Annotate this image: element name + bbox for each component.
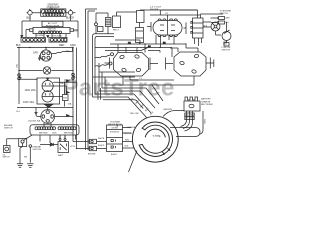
svg-text:RED: RED	[190, 115, 195, 117]
svg-text:3600: 3600	[223, 44, 227, 46]
svg-text:RELAY: RELAY	[49, 8, 57, 11]
svg-text:ENGINE: ENGINE	[150, 9, 159, 11]
svg-text:CHARGE: CHARGE	[201, 100, 211, 103]
svg-text:SWITCH: SWITCH	[222, 50, 231, 52]
svg-text:RECTIFIER: RECTIFIER	[201, 104, 213, 106]
svg-text:BLK: BLK	[53, 133, 58, 135]
svg-text:GRN: GRN	[70, 44, 76, 47]
svg-text:BROWN: BROWN	[39, 133, 48, 135]
svg-text:SWITCH: SWITCH	[33, 149, 42, 151]
svg-text:POWER: POWER	[36, 35, 45, 37]
svg-text:BLK: BLK	[185, 118, 189, 120]
svg-text:T-TYPE: T-TYPE	[152, 136, 161, 138]
svg-text:RED: RED	[125, 139, 130, 141]
svg-text:BLACK: BLACK	[66, 17, 75, 20]
svg-text:RED: RED	[59, 44, 64, 47]
svg-text:BROWN: BROWN	[164, 109, 173, 111]
svg-text:120V 20A: 120V 20A	[25, 89, 36, 92]
svg-text:BATTERY: BATTERY	[201, 98, 211, 101]
svg-text:BLK: BLK	[190, 118, 194, 120]
svg-text:15A: 15A	[68, 103, 72, 106]
svg-text:BLK: BLK	[27, 17, 32, 20]
svg-text:REGULATOR: REGULATOR	[108, 123, 122, 126]
svg-text:SWITCH: SWITCH	[3, 156, 11, 158]
svg-text:YELLOW: YELLOW	[130, 113, 140, 115]
svg-text:BLK: BLK	[125, 145, 129, 147]
svg-text:RED: RED	[185, 115, 190, 117]
svg-text:RECT: RECT	[113, 30, 120, 32]
svg-text:120/240V 30A: 120/240V 30A	[28, 120, 41, 123]
svg-text:GROUND: GROUND	[53, 36, 63, 38]
svg-text:BATT: BATT	[58, 154, 64, 157]
svg-text:REGULATOR: REGULATOR	[46, 25, 60, 28]
svg-text:YELLOW: YELLOW	[124, 133, 132, 135]
svg-text:SW: SW	[24, 157, 27, 159]
svg-text:120V 20A: 120V 20A	[23, 101, 34, 104]
svg-text:BROWN: BROWN	[64, 133, 73, 135]
svg-text:MODULE: MODULE	[47, 31, 56, 33]
svg-text:BLK: BLK	[16, 44, 21, 47]
svg-text:GRN: GRN	[225, 18, 230, 20]
svg-text:+12V: +12V	[70, 146, 76, 148]
svg-text:YEL: YEL	[117, 124, 119, 128]
svg-text:BLACK: BLACK	[111, 153, 118, 156]
svg-text:GRN: GRN	[203, 119, 205, 124]
svg-text:ORANGE: ORANGE	[127, 126, 136, 129]
svg-text:SOLENOID: SOLENOID	[110, 132, 120, 134]
svg-text:SWITCH: SWITCH	[220, 13, 229, 15]
svg-text:WHITE: WHITE	[98, 138, 105, 140]
svg-text:GRY: GRY	[33, 52, 39, 55]
svg-text:BLACK: BLACK	[98, 144, 105, 147]
svg-text:BROWN: BROWN	[88, 154, 96, 156]
svg-text:SWITCH: SWITCH	[4, 128, 13, 130]
